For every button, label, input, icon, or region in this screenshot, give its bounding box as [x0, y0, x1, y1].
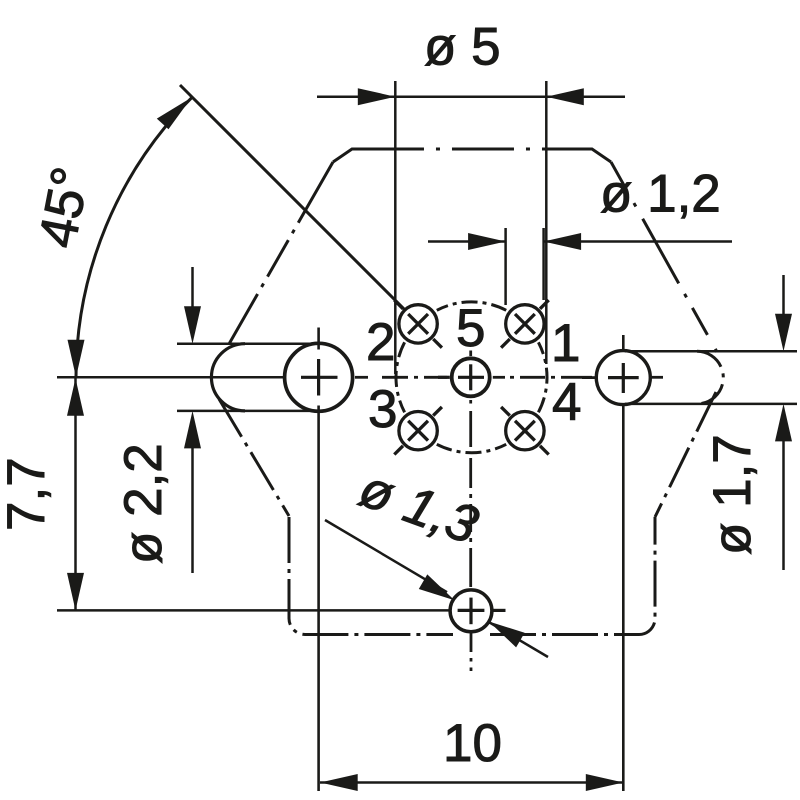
svg-text:1: 1 [551, 314, 580, 373]
svg-text:5: 5 [456, 299, 485, 358]
svg-text:7,7: 7,7 [0, 457, 56, 531]
svg-text:ø 1,2: ø 1,2 [600, 165, 721, 224]
svg-text:3: 3 [368, 380, 397, 439]
svg-text:2: 2 [366, 313, 395, 372]
svg-text:10: 10 [443, 714, 502, 773]
svg-text:ø 5: ø 5 [424, 18, 501, 77]
svg-text:ø 1,7: ø 1,7 [703, 434, 762, 555]
svg-text:ø 2,2: ø 2,2 [114, 443, 173, 564]
svg-text:4: 4 [552, 373, 581, 432]
